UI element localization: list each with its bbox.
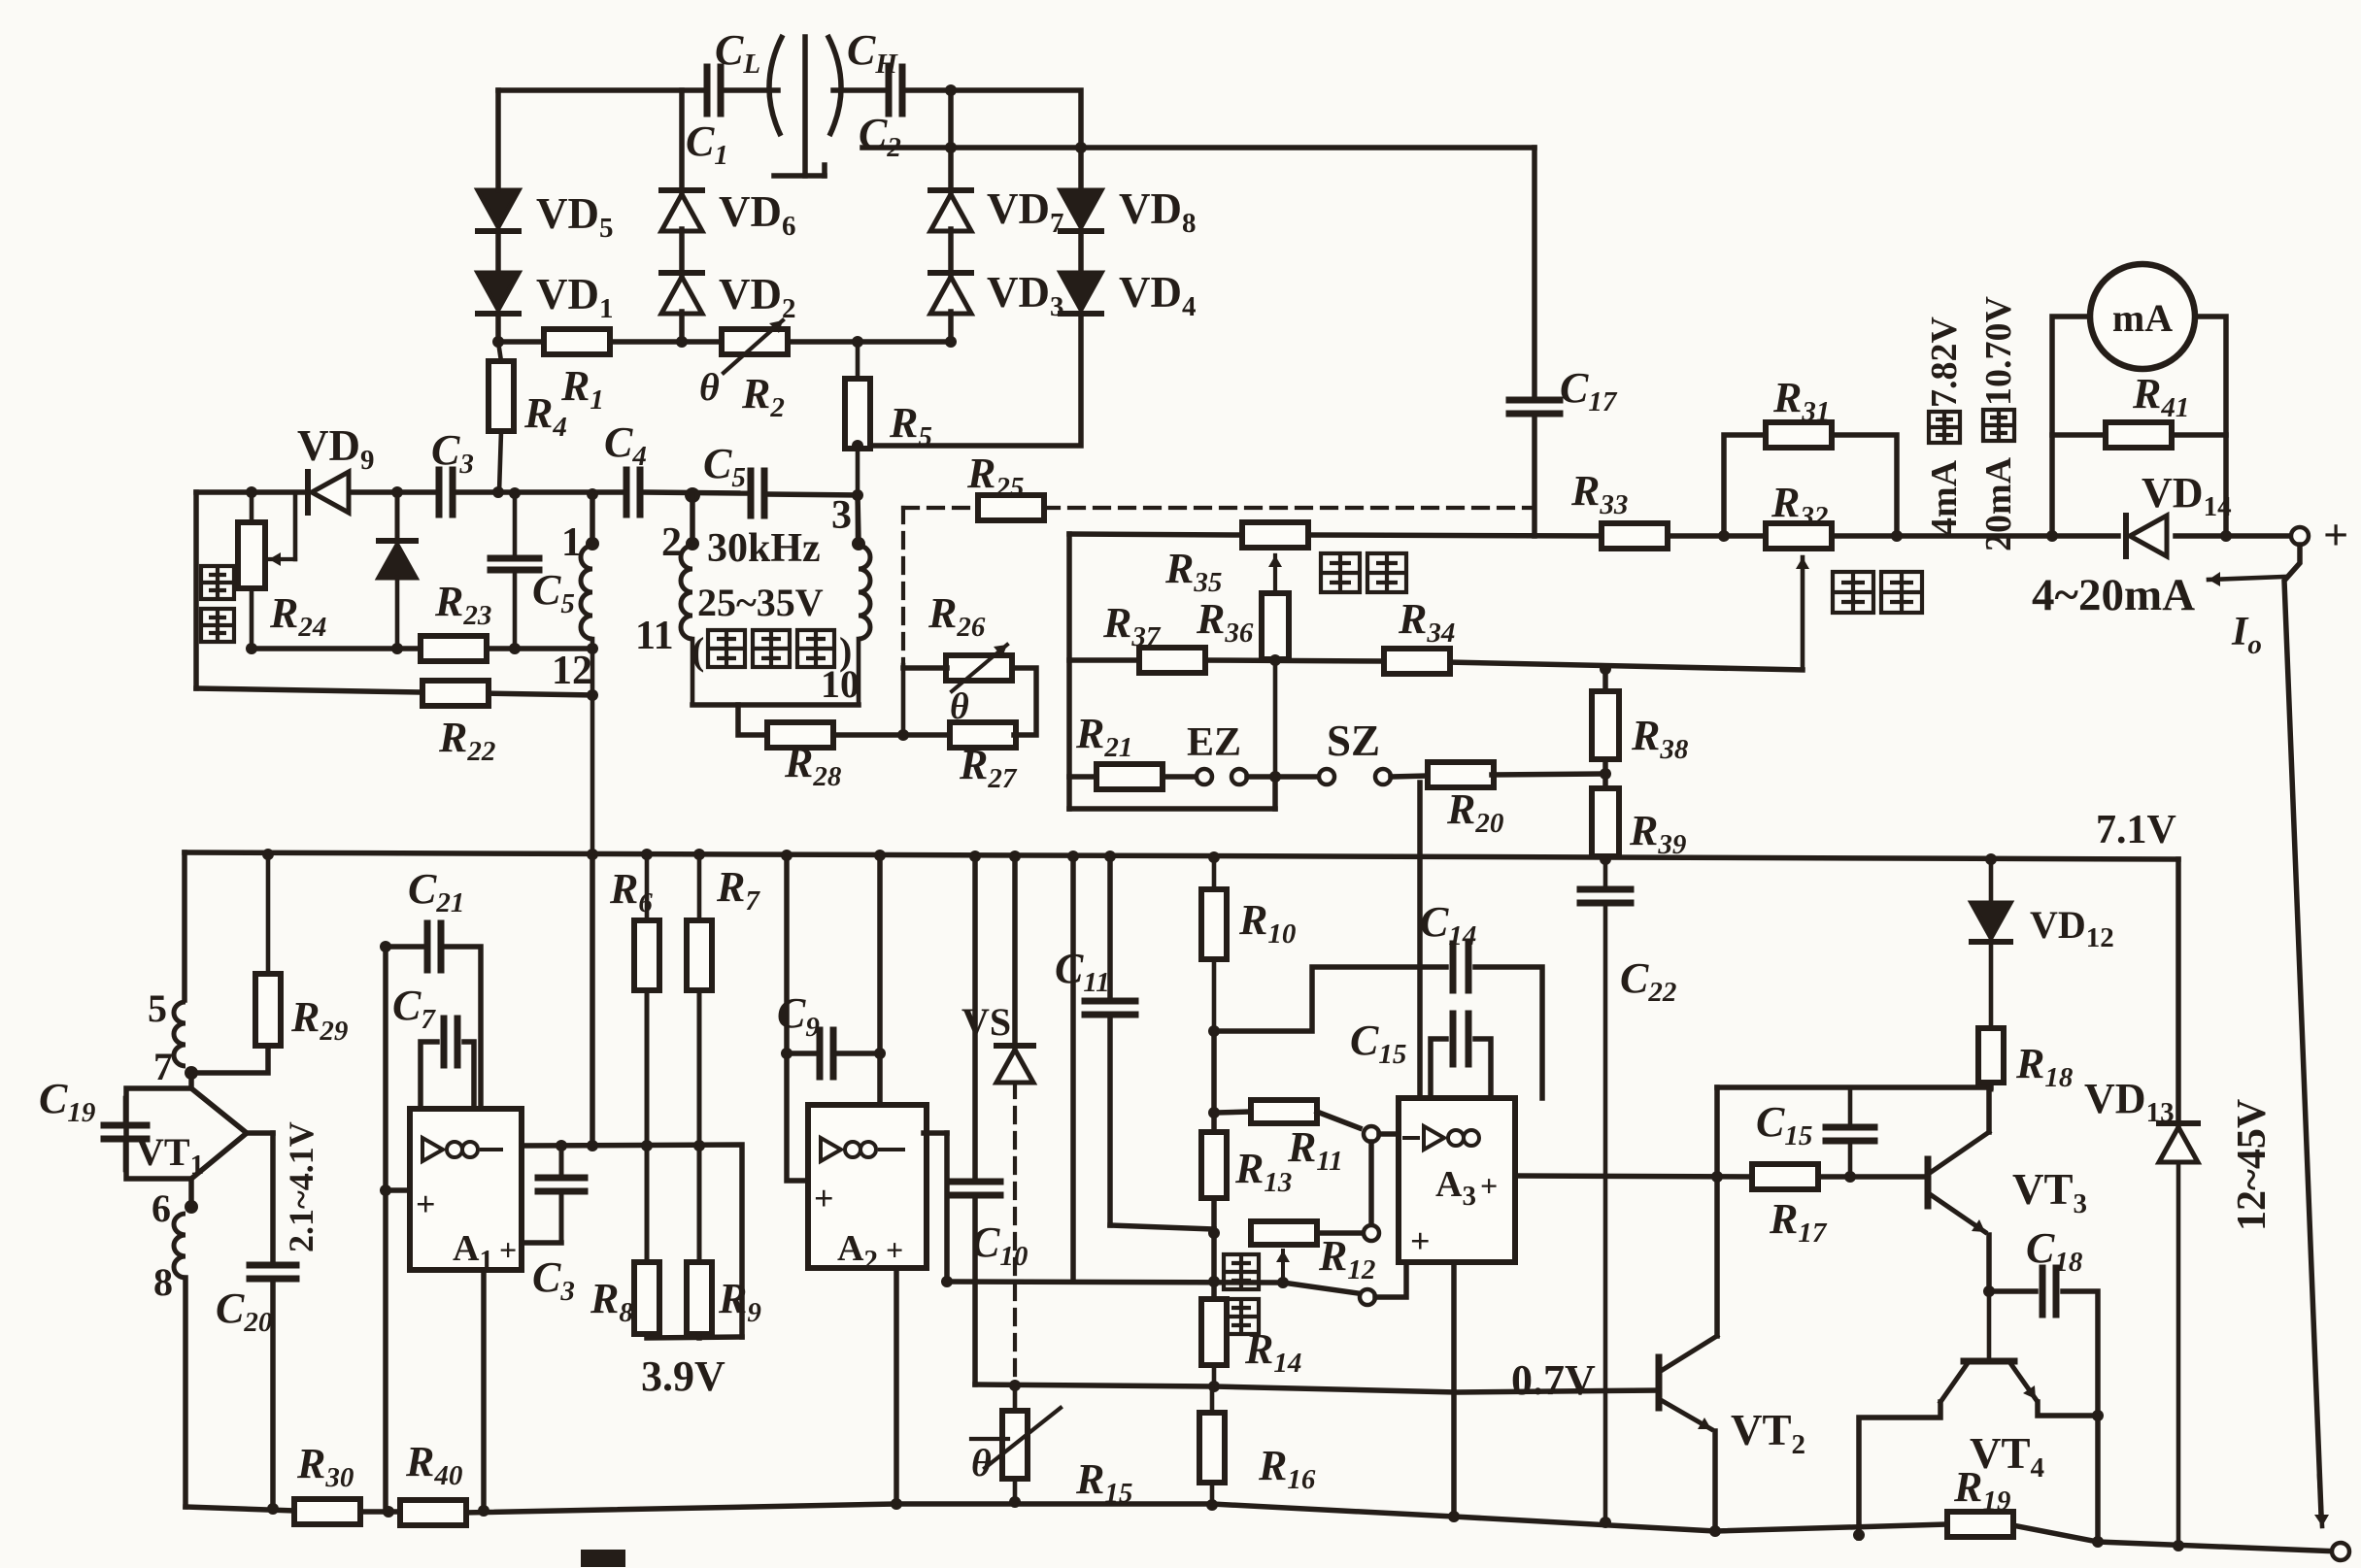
wire pin12 col lower [590, 852, 595, 1146]
wire VD3 to node [948, 312, 954, 342]
transformer pin3 stub [858, 495, 859, 540]
opamp A1 [410, 1109, 522, 1270]
wire left branch [193, 492, 199, 688]
opamp A2 [808, 1105, 927, 1268]
junction A2 out [941, 1276, 953, 1287]
svg-text:8: 8 [153, 1260, 173, 1304]
thermistor R15 [1013, 1385, 1018, 1411]
resistor R30 [294, 1499, 360, 1524]
junction R31 box [1718, 530, 1730, 542]
wire A1 out [522, 1145, 742, 1337]
resistor R19 [1947, 1512, 2013, 1537]
svg-text:5: 5 [148, 986, 167, 1030]
svg-text:10: 10 [821, 662, 860, 706]
capacitor C20 [250, 1262, 296, 1269]
capacitor C10 [950, 1179, 1000, 1185]
wire C21 loop [386, 944, 422, 950]
wire C1 to trimmer [721, 87, 778, 93]
resistor R11 [1251, 1100, 1317, 1123]
wire C18 row [1989, 1288, 2036, 1294]
wire VD4 down [858, 314, 1081, 446]
junction rail dots [262, 849, 274, 860]
wire R38-R39 [1602, 759, 1608, 788]
wire R21 row [1069, 774, 1098, 780]
wire VD1 to node [495, 314, 501, 342]
wire VS dashed [1013, 1083, 1017, 1385]
svg-text:+: + [1410, 1221, 1431, 1260]
diode VD8 [1061, 190, 1101, 227]
capacitor C5 shunt [513, 493, 518, 553]
arrow range wiper [1801, 557, 1805, 670]
svg-text:mA: mA [2112, 296, 2173, 340]
junction node VD1 [492, 336, 504, 348]
svg-text:3: 3 [831, 493, 852, 538]
junction R28 node [897, 729, 909, 741]
winding 3 [859, 546, 870, 639]
wire C9 col [787, 1051, 814, 1056]
resistor R17 [1752, 1164, 1818, 1189]
resistor R29 [266, 854, 271, 971]
wire C17 column [1532, 148, 1537, 394]
resistor R28 [767, 722, 833, 748]
svg-text:7.82V: 7.82V [1924, 317, 1965, 409]
resistor R22 [422, 681, 489, 706]
svg-text:7: 7 [153, 1045, 173, 1088]
junction R17 cross [1711, 1171, 1723, 1183]
wire R37 row [1069, 657, 1142, 663]
resistor R6 [645, 855, 650, 920]
junction 0.7V node [1208, 1381, 1220, 1392]
wire R26 left [903, 665, 947, 671]
contact EZ [1197, 769, 1212, 784]
winding 1 [581, 546, 592, 639]
wire VT1 emitter col [270, 1133, 276, 1259]
arrow R36 wiper [1273, 555, 1277, 596]
wire contact3 A3 [1375, 1262, 1406, 1297]
resistor R9 [697, 1146, 702, 1262]
wire R39 bottom [1602, 856, 1608, 859]
wire R28-R27 [833, 732, 953, 738]
resistor R41 [2106, 422, 2172, 448]
svg-text:θ: θ [950, 686, 969, 727]
svg-text:11: 11 [635, 614, 674, 658]
svg-text:7.1V: 7.1V [2096, 808, 2176, 852]
wire VD8 top [1078, 148, 1084, 192]
svg-text:2.1~4.1V: 2.1~4.1V [282, 1121, 320, 1252]
resistor R4 [489, 361, 514, 431]
resistor R23 [421, 636, 487, 661]
wire meter box [2052, 317, 2090, 536]
junction R15 top [1009, 1380, 1021, 1391]
svg-text:6: 6 [152, 1186, 171, 1230]
resistor R2 pot [722, 329, 788, 354]
capacitor C1 [704, 67, 711, 114]
resistor R12 [1251, 1221, 1317, 1245]
resistor R5 [845, 379, 870, 449]
contact SZ [1319, 769, 1334, 784]
contact damping 2 [1364, 1225, 1379, 1241]
label linearity xianxing [201, 566, 234, 599]
wire transformer bottom [692, 702, 859, 708]
svg-text:θ: θ [971, 1441, 992, 1485]
zener VS [1012, 856, 1018, 1047]
svg-text:θ: θ [699, 365, 720, 409]
diode VD12 [1989, 859, 1994, 904]
wire VD5-VD1 [495, 231, 501, 275]
svg-text:+: + [499, 1232, 517, 1267]
resistor R39 [1592, 788, 1619, 856]
wire C14 right [1475, 967, 1542, 1098]
wire R20 right [1492, 774, 1605, 775]
svg-text:4mA: 4mA [1924, 459, 1965, 536]
wire A2 top col [877, 855, 883, 1105]
resistor R13 [1201, 1132, 1227, 1198]
junction bottom rail [267, 1503, 279, 1515]
wire A2 out [924, 1130, 947, 1136]
wire A1 plus stub [386, 1187, 410, 1193]
node pin 2 [686, 537, 699, 550]
caption fragment [581, 1550, 625, 1567]
arrow current [2209, 577, 2284, 580]
svg-text:10.70V: 10.70V [1978, 296, 2019, 407]
svg-text:+: + [1480, 1168, 1498, 1203]
svg-text:3.9V: 3.9V [641, 1352, 725, 1400]
wire rail 7.1V [185, 852, 2178, 859]
junction R39 node [1600, 768, 1611, 780]
resistor R26 pot [946, 655, 1012, 681]
wire C14 link [1214, 967, 1446, 1031]
diode VD3 [930, 277, 971, 314]
svg-text:+: + [814, 1179, 834, 1218]
wire R28 drop [738, 705, 767, 735]
wire VD7 top [948, 88, 954, 192]
junction meter box [2046, 530, 2058, 542]
svg-text:VS: VS [961, 1000, 1011, 1044]
terminal minus [2332, 1543, 2349, 1560]
transistor VT4 [1987, 1291, 1992, 1361]
wire C10 col [972, 856, 978, 1177]
junction R11 tap [1208, 1107, 1220, 1118]
junction dots linearity row [246, 486, 257, 498]
capacitor C19 [123, 1098, 128, 1121]
wire R38 top [1602, 670, 1608, 691]
svg-text:+: + [886, 1232, 903, 1267]
resistor R8 [645, 1146, 650, 1262]
wire R25 dashed [903, 506, 978, 510]
resistor R14 [1201, 1299, 1227, 1365]
contact damping 3 [1360, 1289, 1375, 1305]
wire EZ to node [1247, 774, 1319, 780]
svg-text:SZ: SZ [1327, 717, 1380, 765]
winding 6-8 [174, 1214, 186, 1278]
resistor R37 [1139, 648, 1205, 673]
diode VD9 [312, 472, 349, 513]
arrow R12 wiper [1281, 1251, 1285, 1280]
capacitor C5 series [748, 471, 755, 516]
resistor R10 [1212, 857, 1217, 889]
wire R11 link [1211, 1031, 1217, 1296]
node pin 3 [852, 537, 865, 550]
resistor R18 [1978, 1028, 2004, 1083]
junction R12 tap [1208, 1227, 1220, 1239]
wire rail 352 [498, 339, 951, 345]
diode VD2 [661, 277, 702, 314]
opamp A3 [1399, 1098, 1515, 1262]
wire bias col [1070, 856, 1076, 1282]
wire 0.7V row [975, 1385, 1659, 1392]
wire contact1-2 [1368, 1142, 1374, 1223]
wire main out rail [1069, 534, 1241, 535]
resistor R36 [1262, 593, 1289, 659]
transistor VT1 block [126, 1073, 191, 1207]
svg-text:12~45V: 12~45V [2230, 1099, 2275, 1231]
resistor R34 [1384, 649, 1450, 674]
wire R17 to VT3 [1818, 1174, 1926, 1180]
capacitor C11 [1107, 856, 1113, 996]
wire box bottom [1069, 806, 1275, 812]
junction R10 bottom [1208, 1025, 1220, 1037]
wire signal 1320 [947, 1282, 1358, 1293]
resistor R38 [1592, 691, 1619, 759]
meter mA [2090, 264, 2195, 369]
capacitor C14 [1450, 944, 1457, 990]
contact damping 1 [1364, 1126, 1379, 1142]
wire A1 bottom col [481, 1270, 487, 1513]
resistor R20 [1428, 762, 1494, 787]
resistor R27 [950, 722, 1016, 748]
svg-text:4~20mA: 4~20mA [2032, 570, 2195, 620]
node pin 6 [185, 1200, 198, 1214]
node pin 7 [185, 1066, 198, 1080]
capacitor C15 b [1848, 1087, 1853, 1123]
wire left rail corner [182, 852, 187, 1000]
wire A2 plus col [787, 855, 808, 1181]
wire zero drop dashed [901, 508, 905, 665]
svg-text:12: 12 [552, 649, 592, 693]
label damping zuni [1224, 1254, 1259, 1289]
junction C9 [781, 1048, 793, 1059]
junction R36 bottom [1269, 654, 1281, 666]
label zero point [1321, 553, 1360, 592]
diode VD4 [1061, 273, 1101, 310]
diode VD6 [661, 194, 702, 231]
capacitor C3 [436, 470, 443, 515]
resistor R40 [400, 1500, 466, 1525]
svg-text:0.7V: 0.7V [1511, 1356, 1596, 1404]
capacitor CH [886, 67, 893, 114]
wire A2 bottom col [894, 1268, 899, 1504]
wire supply down [2284, 545, 2321, 1515]
resistor R21 [1096, 764, 1163, 789]
capacitor C21 [424, 923, 431, 970]
junction VT3 emitter [1983, 1285, 1995, 1297]
svg-text:(: ( [691, 629, 704, 673]
wire A3 bottom col [1451, 1262, 1457, 1517]
wire rail end down [2175, 859, 2181, 1125]
wire contact1 A3 [1379, 1131, 1399, 1137]
wire R8R9 bottom [647, 1334, 742, 1338]
arrow supply end [2319, 1476, 2322, 1526]
capacitor C18 [2040, 1268, 2046, 1315]
trimmer capacitor CL/CH rotor [769, 35, 783, 136]
wire CH to right corner [903, 90, 1081, 148]
junction A1 stub [380, 1184, 391, 1196]
wire bottom rail [186, 1507, 296, 1511]
capacitor C22 [1603, 859, 1608, 884]
wire A1 plus col [383, 947, 388, 1512]
resistor R33 [1602, 523, 1668, 549]
wire VD7-VD3 [948, 229, 954, 275]
wire mid rail 152 [862, 145, 1535, 150]
wire VT4 emitter down [2095, 1416, 2101, 1542]
wire SZ to R20 [1391, 776, 1430, 777]
wire R31 box [1724, 435, 1766, 536]
diode linearity [395, 492, 400, 540]
resistor R25 [978, 495, 1044, 520]
terminal plus [2291, 527, 2309, 545]
capacitor C7 [441, 1018, 448, 1065]
wire VD6 top [679, 90, 685, 192]
resistor R32 [1766, 523, 1832, 549]
capacitor C4 [624, 470, 630, 515]
wire box left [1066, 534, 1072, 809]
transistor VT2 [1656, 1357, 1663, 1408]
wire top rail left loop [498, 87, 707, 93]
wire C15 box top [1717, 1084, 1991, 1090]
wire pin8 down [183, 1278, 188, 1507]
wire VD6-VD2 [679, 229, 685, 275]
resistor R16 [1210, 1386, 1215, 1413]
resistor R7 [697, 855, 702, 920]
resistor R31 [1766, 422, 1832, 448]
svg-text:+: + [416, 1184, 436, 1223]
resistor R1 [544, 329, 610, 354]
diode VD5 [478, 190, 519, 227]
capacitor C15 a [1431, 1039, 1446, 1098]
wire A3 minus col [1417, 783, 1423, 1098]
wire linearity row [196, 489, 307, 495]
transformer pin1 stub [590, 494, 595, 540]
wire VD8-VD4 [1078, 231, 1084, 275]
svg-text:+: + [2323, 510, 2348, 559]
junction node R2-R5 [852, 336, 863, 348]
wire R23 row [252, 646, 592, 651]
junction R38 [1600, 663, 1611, 675]
capacitor C17 [1509, 397, 1560, 404]
winding 5-7 [174, 1002, 186, 1066]
transistor VT3 [1925, 1159, 1932, 1206]
junction R23 dots [246, 643, 257, 654]
junction SZ node [1269, 771, 1281, 783]
svg-text:EZ: EZ [1187, 720, 1241, 765]
junction C15b [1844, 1171, 1856, 1183]
transformer pin2 stub [690, 495, 695, 540]
junction 1320 wire [1208, 1276, 1220, 1287]
diode VD1 [478, 273, 519, 310]
wire A2 out col [944, 1133, 950, 1282]
junction C18 right [2092, 1410, 2104, 1421]
junction A1 out dots [556, 1140, 567, 1151]
svg-text:20mA: 20mA [1978, 456, 2019, 551]
potentiometer R24 [238, 522, 265, 588]
potentiometer R35 [1242, 522, 1308, 548]
label range liangcheng [1833, 572, 1873, 613]
wire VD2 to node [679, 312, 685, 342]
svg-text:30kHz: 30kHz [707, 526, 821, 571]
wire R27 right [1011, 668, 1036, 735]
diode VD14 [2130, 516, 2167, 556]
capacitor C8 [559, 1146, 564, 1172]
svg-text:25~35V: 25~35V [697, 581, 824, 624]
wire R22 row [196, 688, 592, 695]
junction C7 [380, 941, 391, 952]
wire A3out to R17 [1515, 1176, 1752, 1177]
node pin 1 [586, 537, 599, 550]
wire trimmer to CH [833, 87, 888, 93]
diode VD13 zener [2159, 1127, 2198, 1162]
capacitor C9 [817, 1030, 824, 1077]
winding 2 [681, 546, 692, 639]
wire C7 loop [421, 1042, 437, 1109]
diode VD7 [930, 194, 971, 231]
